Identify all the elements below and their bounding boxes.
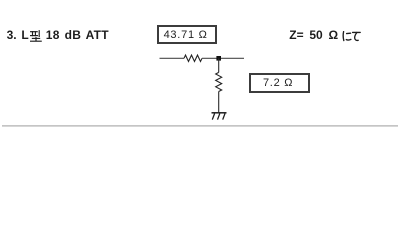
resistor R1 (series, horizontal zigzag) bbox=[184, 55, 202, 61]
resistor R2 (shunt, vertical zigzag) bbox=[216, 72, 222, 91]
title "18 dB ATT" bbox=[46, 29, 109, 41]
label "Z= 50 Ω" bbox=[289, 29, 338, 41]
bottom divider rule bbox=[2, 125, 398, 127]
value box 7.2 Ω bbox=[249, 73, 310, 93]
junction node dot bbox=[216, 56, 221, 61]
wire: resistor to ground bbox=[218, 92, 220, 113]
value box 43.71 Ω bbox=[157, 25, 217, 44]
title "3." bbox=[7, 29, 17, 41]
wire: junction down to shunt resistor bbox=[218, 58, 220, 72]
wire: horizontal segment to output bbox=[202, 57, 244, 59]
kanji 型 (drawn, no CJK font available) bbox=[30, 30, 42, 43]
ground symbol bbox=[212, 113, 227, 120]
hiragana に (drawn) bbox=[342, 31, 352, 42]
circuit drawing bbox=[0, 0, 400, 133]
title "L" bbox=[21, 29, 28, 41]
hiragana て (drawn) bbox=[352, 31, 361, 42]
wire: input horizontal segment bbox=[160, 57, 185, 59]
